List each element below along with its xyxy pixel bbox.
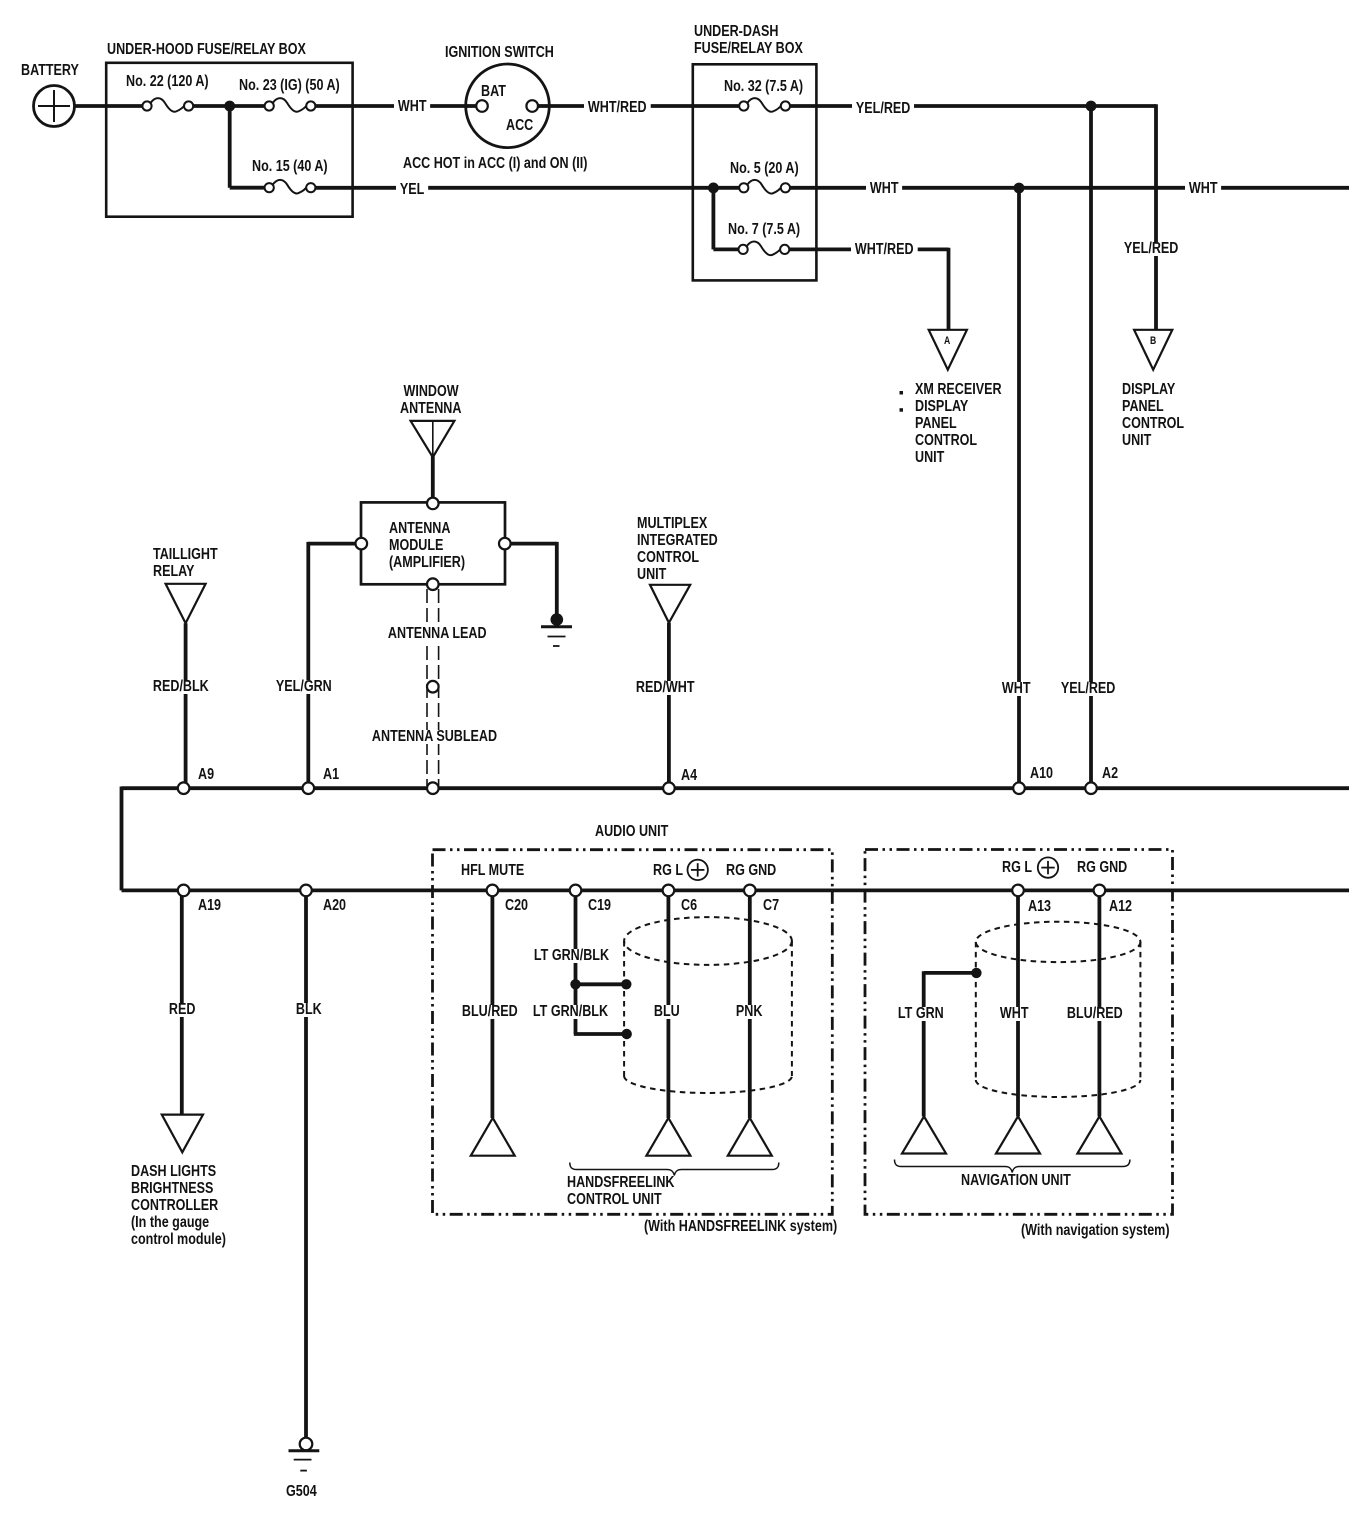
- wire fuse22 to fuse23 through junction: [186, 104, 272, 108]
- label wire YEL/RED right: [1120, 242, 1182, 256]
- label wire BLU/RED nav: [1063, 1007, 1127, 1021]
- junction C19 shield upper right: [621, 979, 631, 989]
- connector A triangle: [929, 330, 967, 370]
- label wire WHT/RED mid: [851, 243, 917, 257]
- bus1 terminal A2: [1085, 782, 1097, 794]
- fuse No.15 (40 A): [265, 180, 316, 194]
- handsfreelink terminal triangle C20: [471, 1118, 515, 1156]
- label With navigation system: [1021, 1224, 1170, 1238]
- label DASH LIGHTS BRIGHTNESS CONTROLLER block: [131, 1163, 226, 1248]
- fuse No.7 (7.5 A): [739, 242, 790, 256]
- fuse No.5 (20 A): [739, 180, 790, 194]
- bus2 terminal A20: [300, 885, 312, 897]
- label wire WHT nav: [996, 1007, 1032, 1021]
- bus2 terminal C19: [570, 885, 582, 897]
- label wire LT GRN/BLK lower: [529, 1005, 612, 1019]
- ignition BAT terminal: [476, 100, 488, 112]
- label B in triangle: [1150, 334, 1156, 348]
- label pin C6: [681, 899, 697, 913]
- label wire YEL/GRN: [272, 680, 336, 694]
- wire WHT A13: [1016, 890, 1020, 1116]
- handsfreelink terminal triangle C6: [646, 1118, 690, 1156]
- bus2 terminal C20: [487, 885, 499, 897]
- label BAT pin: [481, 85, 506, 99]
- label UNDER-DASH: [694, 25, 778, 39]
- label UNDER-HOOD FUSE/RELAY BOX: [107, 43, 306, 57]
- wire into ignition BAT: [465, 104, 478, 108]
- module terminal right: [499, 538, 511, 550]
- module terminal top: [427, 498, 439, 510]
- junction C19 shield upper left: [570, 979, 580, 989]
- bullet display panel: [900, 408, 904, 412]
- label wire YEL: [396, 183, 428, 197]
- wire vertical B feed: [1154, 104, 1158, 330]
- fuse No.23 (IG) (50 A): [265, 98, 316, 112]
- bus2 terminal C6: [663, 885, 675, 897]
- label pin A4: [681, 769, 697, 783]
- label wire BLK: [292, 1003, 326, 1017]
- wire from ignition ACC: [536, 104, 550, 108]
- label wire WHT mid: [866, 182, 902, 196]
- label pin C7: [763, 899, 779, 913]
- wire WHT/RED fuse7 to corner: [782, 247, 949, 251]
- battery: [34, 86, 75, 127]
- wire vertical A10 feed: [1017, 188, 1021, 788]
- label fuse No.32 value: [724, 80, 803, 94]
- junction YEL/RED A2: [1086, 101, 1097, 112]
- label HFL MUTE: [461, 864, 524, 878]
- module terminal bottom: [427, 578, 439, 590]
- label wire RED/BLK: [149, 680, 213, 694]
- ignition switch: [466, 64, 550, 148]
- label ACC pin: [506, 119, 533, 133]
- wire RED A19 down: [180, 890, 184, 1114]
- label pin C20: [505, 899, 528, 913]
- wire underdash junction vertical: [712, 188, 716, 250]
- label pin A1: [323, 768, 339, 782]
- label XM receiver block: [915, 381, 1002, 466]
- junction C19 shield lower: [622, 1029, 632, 1039]
- navigation brace: [895, 1160, 1130, 1173]
- wire LT GRN/BLK C19: [574, 890, 578, 1034]
- label WINDOW ANTENNA: [400, 383, 461, 417]
- handsfreelink terminal triangle C7: [728, 1118, 772, 1156]
- navigation terminal triangle WHT: [996, 1116, 1040, 1153]
- wire junction to fuse15: [230, 186, 272, 190]
- wire WHT/RED ignition ACC to under-dash fuse 32: [536, 104, 746, 108]
- bus1 terminal A4: [663, 782, 675, 794]
- label wire YEL/RED top: [852, 102, 914, 116]
- label pin C19: [588, 899, 611, 913]
- ground symbol at module: [541, 613, 572, 646]
- under-dash fuse/relay box: [693, 64, 817, 280]
- wire YEL/RED fuse32 to corner: [782, 104, 1156, 108]
- label ANTENNA LEAD: [384, 627, 490, 641]
- wire window antenna feed: [431, 455, 435, 503]
- label AUDIO UNIT: [595, 825, 668, 839]
- shield cylinder handsfreelink: [624, 917, 792, 1093]
- taillight relay triangle: [166, 584, 206, 623]
- junction under-dash: [708, 183, 719, 194]
- label pin A2: [1102, 767, 1118, 781]
- navigation terminal triangle BLU/RED: [1077, 1116, 1121, 1153]
- RG L plus symbol navigation: [1038, 857, 1058, 877]
- wire WHT fuse5 right to page edge: [782, 186, 1349, 190]
- label wire WHT A10: [998, 682, 1034, 696]
- wire LT GRN vertical: [922, 971, 926, 1116]
- wire shield stub lower: [574, 1032, 627, 1036]
- shield cylinder navigation: [976, 922, 1141, 1097]
- label wire LT GRN: [894, 1007, 948, 1021]
- dash lights brightness controller triangle: [162, 1115, 203, 1153]
- label pin A12: [1109, 900, 1132, 914]
- handsfreelink brace: [570, 1163, 779, 1176]
- RG L plus symbol handsfreelink: [688, 860, 708, 880]
- label wire LT GRN/BLK upper: [530, 949, 613, 963]
- label wire WHT left: [394, 100, 430, 114]
- junction WHT A10: [1014, 183, 1025, 194]
- ignition ACC terminal: [526, 100, 538, 112]
- label wire YEL/RED A2: [1057, 682, 1119, 696]
- wire junction underhood vertical: [228, 106, 232, 188]
- bullet XM receiver: [900, 391, 904, 395]
- wire vertical A2 feed: [1089, 106, 1093, 788]
- under-hood fuse/relay box: [106, 63, 352, 217]
- label ACC HOT note: [403, 157, 587, 171]
- module terminal left: [356, 538, 368, 550]
- label RG GND handsfree: [726, 864, 776, 878]
- bus2 terminal A13: [1012, 885, 1024, 897]
- wire battery to fuse box: [74, 104, 150, 108]
- window antenna symbol: [411, 421, 455, 457]
- antenna lead coax: [427, 589, 439, 786]
- bus line upper A9-A2: [122, 786, 1350, 790]
- label A in triangle: [944, 334, 950, 348]
- label With HANDSFREELINK system: [644, 1220, 837, 1234]
- bus1 terminal A1: [303, 782, 315, 794]
- bus left vertical: [120, 787, 124, 891]
- wire BLU/RED A12: [1098, 890, 1102, 1116]
- label wire BLU/RED C20: [458, 1005, 522, 1019]
- label display panel control unit block B: [1122, 381, 1184, 449]
- wire LT GRN stub to shield: [924, 971, 977, 975]
- label fuse No.22 value: [126, 75, 209, 89]
- label BATTERY: [21, 64, 79, 78]
- bus line lower A19-A12: [122, 889, 1350, 893]
- label RG GND navigation: [1077, 861, 1127, 875]
- bus1 terminal A9: [178, 782, 190, 794]
- wire YEL/GRN vertical A1: [306, 542, 310, 788]
- junction LT GRN shield: [971, 968, 981, 978]
- G504 ground symbol: [289, 1438, 320, 1471]
- label pin A20: [323, 899, 346, 913]
- wire RED/BLK taillight relay to A9: [184, 623, 188, 788]
- label wire PNK: [732, 1005, 766, 1019]
- multiplex integrated control unit triangle: [650, 585, 690, 623]
- connector B triangle: [1134, 330, 1172, 370]
- wire junction to fuse7: [713, 247, 746, 251]
- label IGNITION SWITCH: [445, 46, 554, 60]
- wire BLU/RED C20: [490, 890, 494, 1118]
- fuse No.22 (120 A): [142, 98, 193, 112]
- wire module right to ground corner: [509, 542, 557, 546]
- bus2 terminal A12: [1094, 885, 1106, 897]
- label G504: [286, 1485, 317, 1499]
- label fuse No.5 value: [730, 162, 799, 176]
- label pin A9: [198, 768, 214, 782]
- label TAILLIGHT RELAY: [153, 546, 218, 580]
- bus1 terminal A10: [1013, 782, 1025, 794]
- label ANTENNA SUBLEAD: [368, 730, 501, 744]
- label fuse No.23 value: [239, 79, 340, 93]
- wire vertical A connector feed: [947, 248, 951, 330]
- wire shield stub upper: [576, 982, 627, 986]
- label wire WHT right: [1185, 182, 1221, 196]
- wire BLU C6: [667, 890, 671, 1118]
- bus2 terminal A19: [178, 885, 190, 897]
- label wire RED: [165, 1003, 199, 1017]
- wire RED/WHT multiplex to A4: [667, 623, 671, 788]
- wire YEL fuse15 to under-dash junction: [307, 186, 746, 190]
- label wire BLU: [650, 1005, 684, 1019]
- label pin A13: [1028, 900, 1051, 914]
- audio unit dash-dot box navigation: [865, 850, 1173, 1215]
- label RG L navigation: [1002, 861, 1032, 875]
- label ANTENNA MODULE (AMPLIFIER): [389, 520, 465, 571]
- bus1 terminal sublead: [427, 782, 439, 794]
- wire PNK C7: [748, 890, 752, 1118]
- navigation terminal triangle LT GRN: [902, 1116, 946, 1153]
- label pin A19: [198, 899, 221, 913]
- antenna module (amplifier) box: [361, 502, 505, 584]
- label FUSE/RELAY BOX: [694, 42, 803, 56]
- wire WHT fuse23 to ignition BAT: [308, 104, 478, 108]
- bus2 terminal C7: [744, 885, 756, 897]
- wire ground vertical: [555, 542, 559, 617]
- label HANDSFREELINK CONTROL UNIT: [567, 1174, 674, 1208]
- wire BLK A20 to G504: [304, 890, 308, 1438]
- wire YEL/GRN horizontal to module: [308, 542, 357, 546]
- antenna lead/sublead connector: [427, 681, 439, 693]
- label MULTIPLEX INTEGRATED CONTROL UNIT: [637, 515, 718, 583]
- audio unit dash-dot box handsfreelink: [433, 850, 833, 1215]
- label RG L handsfree: [653, 864, 683, 878]
- label wire WHT/RED left: [584, 101, 650, 115]
- junction under-hood: [224, 101, 235, 112]
- label fuse No.7 value: [728, 223, 800, 237]
- label wire RED/WHT: [632, 681, 698, 695]
- fuse No.32 (7.5 A): [739, 98, 790, 112]
- label NAVIGATION UNIT: [961, 1174, 1071, 1188]
- label fuse No.15 value: [252, 160, 328, 174]
- label pin A10: [1030, 767, 1053, 781]
